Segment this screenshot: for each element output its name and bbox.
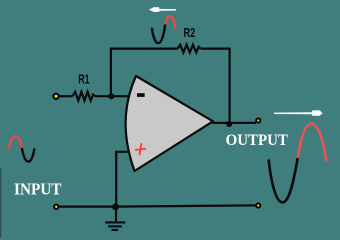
wire: feedback left vertical — [110, 49, 112, 97]
arrow: output direction (right) — [274, 110, 323, 115]
wire: R1 to inverting input junction — [95, 95, 129, 97]
resistor R2 — [178, 45, 201, 53]
arrow: feedback direction (left) — [149, 7, 176, 12]
feedback sine waveform — [152, 16, 175, 43]
wire: feedback top right horizontal — [201, 47, 230, 49]
ground — [105, 206, 125, 230]
wire: input terminal to R1 — [58, 95, 73, 97]
output sine waveform — [269, 124, 326, 203]
wire: op-amp output — [213, 122, 257, 124]
bottom-left terminal node — [54, 205, 58, 209]
input sine waveform — [9, 136, 34, 162]
op-amp non-inverting input marker (+) — [136, 144, 146, 155]
op-amp U1 — [126, 76, 213, 171]
wire: bottom rail left — [56, 206, 116, 208]
svg-text:R1: R1 — [78, 72, 90, 87]
wire: feedback top left horizontal — [110, 47, 178, 49]
wire: bottom rail right — [116, 205, 256, 206]
wire: feedback right vertical — [229, 48, 231, 123]
svg-text:INPUT: INPUT — [14, 179, 62, 198]
junction: output feedback node — [226, 121, 232, 127]
junction: inverting input node — [108, 93, 114, 99]
resistor R1 — [73, 92, 95, 101]
junction: ground node — [112, 203, 119, 210]
input terminal node — [53, 94, 58, 99]
bottom-right terminal node — [256, 203, 260, 207]
svg-text:R2: R2 — [184, 25, 196, 40]
wire: non-inverting input to ground rail — [116, 152, 127, 206]
output terminal node — [256, 118, 260, 122]
svg-text:OUTPUT: OUTPUT — [226, 132, 289, 149]
op-amp inverting input marker (-) — [137, 93, 145, 97]
